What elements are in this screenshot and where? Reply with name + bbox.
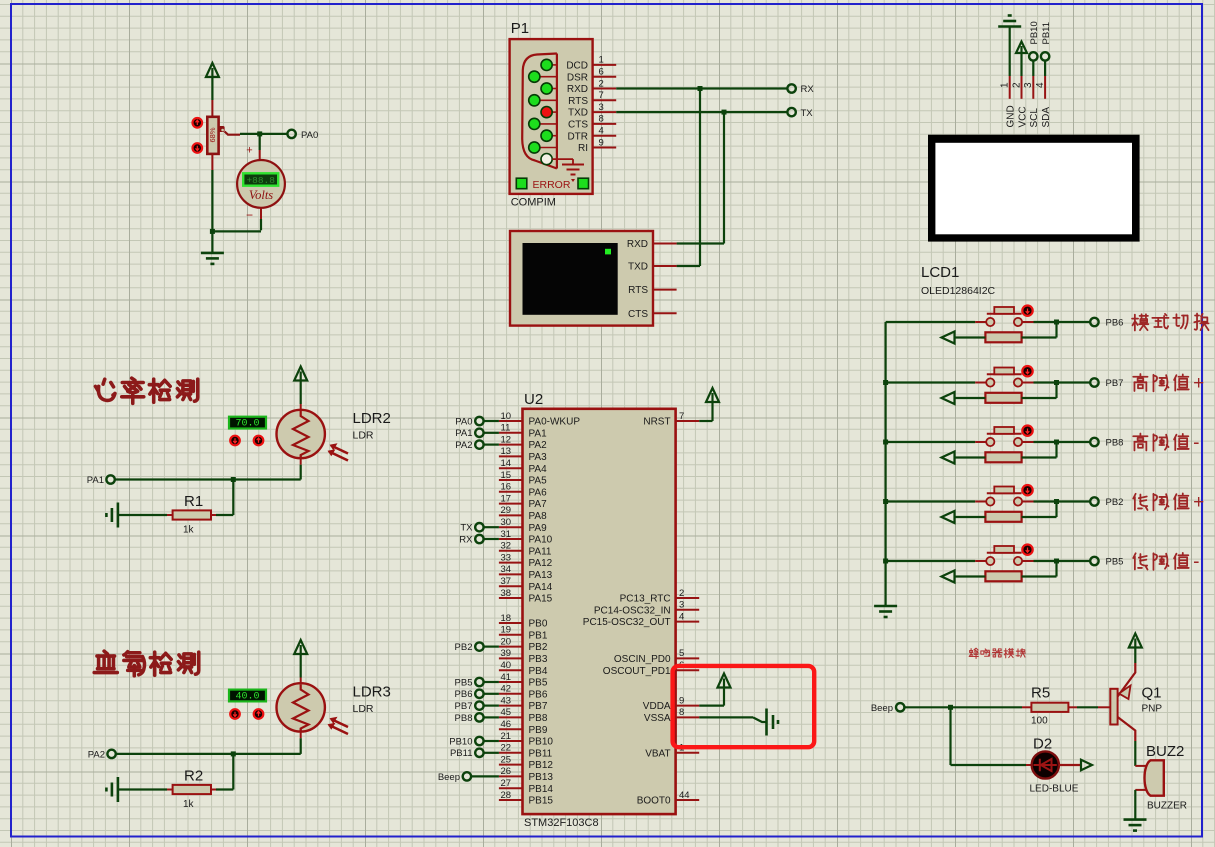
COMPIM pin CTS (8) <box>539 123 557 125</box>
svg-text:4: 4 <box>599 126 604 137</box>
svg-text:PB13: PB13 <box>529 772 554 783</box>
svg-text:PB7: PB7 <box>1106 378 1124 389</box>
svg-text:RI: RI <box>578 143 588 154</box>
resistor R1 <box>211 514 216 516</box>
svg-text:PB12: PB12 <box>529 760 554 771</box>
U2 pin PA6 (16) <box>499 491 523 493</box>
wire bus to key PB5 <box>886 560 976 562</box>
virtual terminal screen <box>523 243 618 315</box>
power VCC arrow (pot) <box>206 63 219 77</box>
svg-text:BOOT0: BOOT0 <box>637 796 671 807</box>
svg-text:PB6: PB6 <box>529 689 548 700</box>
svg-text:PA3: PA3 <box>529 452 548 463</box>
svg-text:4: 4 <box>679 611 684 622</box>
junction PA2-R2 <box>231 751 236 756</box>
wire key to terminal PB6 <box>1034 321 1091 323</box>
U2 pin PA2 (12) <box>499 444 523 446</box>
svg-text:PA1: PA1 <box>529 428 548 439</box>
transistor Q1 collector <box>1118 717 1136 741</box>
svg-text:PB0: PB0 <box>529 619 548 630</box>
svg-text:17: 17 <box>501 493 512 504</box>
svg-text:LDR: LDR <box>353 430 374 442</box>
svg-text:44: 44 <box>679 790 690 801</box>
svg-text:STM32F103C8: STM32F103C8 <box>524 817 599 829</box>
junction TXD <box>722 110 727 115</box>
label 模式切换 row 1 <box>1132 314 1148 330</box>
svg-text:TXD: TXD <box>568 108 588 119</box>
red highlight box <box>673 666 815 747</box>
wire bus to key PB6 <box>886 321 976 323</box>
wire NRST to VCC <box>699 420 712 422</box>
U2 pin PB1 (19) <box>499 634 523 636</box>
svg-text:13: 13 <box>501 446 512 457</box>
svg-text:PB11: PB11 <box>1041 22 1052 45</box>
wire VCC pin <box>1020 57 1022 76</box>
power VCC arrow (NRST) <box>706 388 719 402</box>
svg-text:GND: GND <box>1006 105 1017 127</box>
junction key PB8 <box>1054 440 1059 445</box>
wire Beep to R5 <box>904 706 1022 708</box>
svg-text:PB2: PB2 <box>1106 497 1124 508</box>
junction PA1-R1 <box>231 477 236 482</box>
display 40.0 <box>229 690 266 702</box>
U2 pin PA7 (17) <box>499 503 523 505</box>
svg-text:D2: D2 <box>1033 736 1052 753</box>
svg-text:15: 15 <box>501 470 512 481</box>
svg-text:RTS: RTS <box>628 285 648 296</box>
LDR2 down button <box>230 436 240 446</box>
U2 pin PA15 (38) <box>499 597 523 599</box>
svg-text:LDR2: LDR2 <box>353 410 391 427</box>
svg-text:32: 32 <box>501 541 512 552</box>
U2 pin PA12 (33) <box>499 562 523 564</box>
junction key PB5 <box>1054 559 1059 564</box>
svg-text:40: 40 <box>501 660 512 671</box>
ground (VSSA) <box>765 709 768 736</box>
svg-text:PA1: PA1 <box>455 428 472 439</box>
svg-text:14: 14 <box>501 458 512 469</box>
COMPIM D-sub outline <box>522 54 557 169</box>
svg-text:PB1: PB1 <box>529 630 548 641</box>
wire key to terminal PB7 <box>1034 381 1091 383</box>
svg-text:SDA: SDA <box>1041 107 1052 128</box>
wire PA1 <box>115 478 301 480</box>
LDR3 light arrows <box>329 719 348 734</box>
virtual terminal body <box>510 231 653 326</box>
svg-text:27: 27 <box>501 778 512 789</box>
svg-text:1k: 1k <box>183 525 195 536</box>
svg-text:PNP: PNP <box>1142 704 1163 715</box>
svg-text:33: 33 <box>501 552 512 563</box>
svg-text:31: 31 <box>501 529 512 540</box>
U2 pin PA13 (34) <box>499 573 523 575</box>
svg-text:PB2: PB2 <box>455 642 473 653</box>
COMPIM internal ground <box>552 158 573 160</box>
junction key PB7 <box>1054 380 1059 385</box>
svg-text:DTR: DTR <box>567 131 588 142</box>
svg-text:PB6: PB6 <box>1106 317 1124 328</box>
label threshold row 2 <box>1133 374 1147 391</box>
svg-text:VCC: VCC <box>1017 106 1028 127</box>
svg-text:PA10: PA10 <box>529 535 553 546</box>
svg-text:22: 22 <box>501 743 512 754</box>
svg-text:-: - <box>1193 433 1199 454</box>
U2 pin PA14 (37) <box>499 585 523 587</box>
terminal PB7 (keys) <box>1090 378 1098 386</box>
COMPIM pin TXD (3) <box>552 111 557 113</box>
pot up button <box>193 118 203 128</box>
power VCC arrow (VDDA) <box>718 674 731 688</box>
svg-text:2: 2 <box>679 588 684 599</box>
svg-text:PA7: PA7 <box>529 499 548 510</box>
COMPIM error led 1 <box>516 178 527 189</box>
svg-text:PA2: PA2 <box>88 750 105 761</box>
svg-text:Beep: Beep <box>438 772 460 783</box>
transistor Q1 emitter <box>1118 663 1136 697</box>
svg-text:1: 1 <box>1000 82 1011 88</box>
svg-text:TXD: TXD <box>628 262 648 273</box>
svg-text:37: 37 <box>501 576 512 587</box>
svg-text:PA15: PA15 <box>529 594 553 605</box>
COMPIM pin RI (9) <box>539 147 557 149</box>
key button PB6 <box>975 321 986 323</box>
svg-text:P1: P1 <box>511 20 529 37</box>
svg-text:3: 3 <box>599 102 604 113</box>
voltmeter display <box>243 173 278 185</box>
ground (buzzer) <box>1124 818 1147 821</box>
svg-text:PB11: PB11 <box>529 748 553 759</box>
svg-text:PB15: PB15 <box>529 796 554 807</box>
U2 pin PA3 (13) <box>499 455 523 457</box>
U2 pin PB8 (45) <box>499 716 523 718</box>
ground (R2) <box>117 777 120 802</box>
svg-text:+88.8: +88.8 <box>246 175 275 186</box>
wire bus to key PB8 <box>886 441 976 443</box>
svg-text:PB2: PB2 <box>529 642 548 653</box>
power VCC arrow (I2C) <box>1016 42 1027 54</box>
svg-text:OSCOUT_PD1: OSCOUT_PD1 <box>603 666 671 677</box>
wire wiper to PA0 <box>240 133 287 135</box>
svg-text:PB6: PB6 <box>455 689 473 700</box>
svg-text:PA12: PA12 <box>529 558 553 569</box>
svg-text:SCL: SCL <box>1029 108 1040 128</box>
svg-text:Q1: Q1 <box>1142 685 1162 702</box>
svg-text:43: 43 <box>501 695 512 706</box>
svg-text:1k: 1k <box>183 799 195 810</box>
wire pot top lead <box>211 100 213 118</box>
svg-text:12: 12 <box>501 434 512 445</box>
svg-text:TX: TX <box>801 108 814 119</box>
svg-text:2: 2 <box>599 78 604 89</box>
ground (I2C) <box>998 25 1021 28</box>
svg-text:PB8: PB8 <box>455 713 473 724</box>
svg-text:39: 39 <box>501 648 512 659</box>
svg-text:RX: RX <box>801 84 815 95</box>
power VCC arrow (Q1) <box>1129 634 1142 648</box>
wire VDDA to VCC <box>699 704 724 706</box>
resistor R5 <box>1031 703 1068 712</box>
svg-text:100: 100 <box>1031 716 1048 727</box>
U2 pin PA10 (31) <box>499 538 523 540</box>
junction bus row 5 <box>883 559 888 564</box>
svg-text:LDR3: LDR3 <box>353 684 391 701</box>
label threshold row 4 <box>1133 494 1147 510</box>
svg-text:PB10: PB10 <box>449 736 472 747</box>
svg-text:PB9: PB9 <box>529 725 548 736</box>
svg-text:PA8: PA8 <box>529 511 548 522</box>
svg-text:LED-BLUE: LED-BLUE <box>1030 784 1079 795</box>
svg-text:DCD: DCD <box>566 61 588 72</box>
wire Beep to D2 <box>949 707 951 765</box>
wire TXD to TX <box>616 111 787 113</box>
wire RXD to RX <box>616 87 787 89</box>
LDR2 body <box>300 404 302 413</box>
terminal PB11 (I2C) <box>1041 52 1049 60</box>
key button PB5 <box>975 560 986 562</box>
svg-text:PA13: PA13 <box>529 570 553 581</box>
terminal PB5 (keys) <box>1090 557 1098 565</box>
svg-text:PA0: PA0 <box>301 130 318 141</box>
junction RXD <box>698 86 703 91</box>
label 心率检测 <box>95 379 115 400</box>
svg-text:+: + <box>1193 492 1204 513</box>
ground (pot) <box>201 252 224 255</box>
U2 pin PA8 (29) <box>499 514 523 516</box>
svg-text:PA0: PA0 <box>455 416 472 427</box>
COMPIM error led 2 <box>578 178 589 189</box>
svg-text:1: 1 <box>599 55 604 66</box>
U2 pin PA5 (15) <box>499 479 523 481</box>
OLED display LCD1 <box>928 135 1140 242</box>
wire D2 to arrow <box>1059 764 1081 766</box>
svg-text:CTS: CTS <box>628 309 648 320</box>
junction bus row 2 <box>883 380 888 385</box>
wire GND pin <box>1009 27 1011 76</box>
wire bus to key PB7 <box>886 381 976 383</box>
U2 pin PB4 (40) <box>499 669 523 671</box>
U2 pin PB14 (27) <box>499 787 523 789</box>
LDR2 light arrows <box>329 446 348 461</box>
svg-text:Beep: Beep <box>871 703 893 714</box>
svg-text:PA4: PA4 <box>529 464 548 475</box>
svg-text:OSCIN_PD0: OSCIN_PD0 <box>614 654 671 665</box>
ground (R1) <box>117 503 120 528</box>
U2 pin PB15 (28) <box>499 799 523 801</box>
LDR3 body <box>300 678 302 687</box>
svg-text:PB10: PB10 <box>1029 21 1040 44</box>
svg-text:VBAT: VBAT <box>645 748 670 759</box>
svg-text:25: 25 <box>501 754 512 765</box>
LDR2 up button <box>254 436 264 446</box>
svg-text:7: 7 <box>599 90 604 101</box>
wire buzzer to ground <box>1134 790 1136 820</box>
label 蜂鸣器模块 <box>969 648 978 658</box>
svg-text:COMPIM: COMPIM <box>511 197 556 209</box>
resistor R2 <box>211 789 216 791</box>
svg-text:19: 19 <box>501 625 512 636</box>
svg-text:29: 29 <box>501 505 512 516</box>
svg-text:PB7: PB7 <box>529 701 548 712</box>
svg-text:BUZZER: BUZZER <box>1147 801 1187 812</box>
svg-text:46: 46 <box>501 719 512 730</box>
transistor Q1 base bar <box>1110 689 1117 725</box>
voltmeter body <box>237 160 285 208</box>
label threshold row 3 <box>1133 433 1147 450</box>
virtual terminal cursor <box>605 249 611 255</box>
I2C pin VCC (2) <box>1021 76 1023 99</box>
svg-text:RX: RX <box>459 534 473 545</box>
svg-text:42: 42 <box>501 684 512 695</box>
wire PA2 <box>116 753 301 755</box>
U2 pin PB3 (39) <box>499 657 523 659</box>
wire R2 to ground <box>118 788 167 790</box>
svg-text:PA2: PA2 <box>529 440 548 451</box>
U2 pin PB6 (42) <box>499 693 523 695</box>
svg-text:−: − <box>246 208 253 222</box>
U2 pin PB10 (21) <box>499 740 523 742</box>
svg-text:R2: R2 <box>184 768 203 785</box>
svg-text:U2: U2 <box>524 391 543 408</box>
svg-text:2: 2 <box>1011 82 1022 88</box>
svg-text:RXD: RXD <box>567 84 588 95</box>
I2C pin GND (1) <box>1009 76 1011 99</box>
junction wiper <box>257 131 262 136</box>
U2 pin PA9 (30) <box>499 526 523 528</box>
svg-text:RTS: RTS <box>568 96 588 107</box>
svg-text:LDR: LDR <box>353 703 374 715</box>
svg-text:+: + <box>1193 373 1204 394</box>
svg-text:PC14-OSC32_IN: PC14-OSC32_IN <box>594 605 671 616</box>
svg-text:Volts: Volts <box>249 188 273 202</box>
svg-text:41: 41 <box>501 672 512 683</box>
key bus vertical <box>884 322 886 606</box>
junction bus row 3 <box>883 440 888 445</box>
junction bus row 4 <box>883 499 888 504</box>
svg-text:ERROR: ERROR <box>533 179 571 191</box>
svg-text:PA11: PA11 <box>529 546 552 557</box>
svg-text:11: 11 <box>501 423 511 434</box>
svg-text:PA2: PA2 <box>455 440 472 451</box>
svg-text:9: 9 <box>599 137 604 148</box>
svg-text:16: 16 <box>501 482 512 493</box>
U2 pin PA0-WKUP (10) <box>499 420 523 422</box>
power VCC arrow (LDR2) <box>294 367 307 381</box>
COMPIM pin DTR (4) <box>552 135 557 137</box>
U2 pin PB2 (20) <box>499 646 523 648</box>
svg-text:PB5: PB5 <box>455 677 473 688</box>
potentiometer RV1 body <box>207 117 218 154</box>
svg-text:7: 7 <box>679 411 684 422</box>
pot down button <box>193 143 203 153</box>
wire emitter to VCC <box>1134 648 1136 663</box>
U2 pin PA11 (32) <box>499 550 523 552</box>
svg-text:18: 18 <box>501 613 512 624</box>
COMPIM P1 body <box>510 39 593 194</box>
wire key to terminal PB2 <box>1034 500 1091 502</box>
COMPIM pin DSR (6) <box>539 76 557 78</box>
wire key to terminal PB8 <box>1034 441 1091 443</box>
LED D2 <box>1032 751 1059 778</box>
svg-text:R5: R5 <box>1031 685 1050 702</box>
svg-text:TX: TX <box>460 523 473 534</box>
ground (keys) <box>874 605 897 608</box>
wire VSSA to ground <box>699 716 753 718</box>
svg-text:PA14: PA14 <box>529 582 553 593</box>
U2 pin PB9 (46) <box>499 728 523 730</box>
svg-text:70.0: 70.0 <box>235 419 259 430</box>
junction Beep <box>948 705 953 710</box>
arrow terminal (D2) <box>1081 760 1092 771</box>
svg-text:30: 30 <box>501 517 512 528</box>
svg-text:VDDA: VDDA <box>643 701 671 712</box>
svg-text:OLED12864I2C: OLED12864I2C <box>921 285 996 297</box>
svg-text:9: 9 <box>679 695 684 706</box>
svg-text:PA1: PA1 <box>87 475 104 486</box>
pot wiper arrow <box>219 126 225 132</box>
COMPIM shell pin <box>541 154 552 165</box>
svg-text:3: 3 <box>679 600 684 611</box>
svg-text:34: 34 <box>501 564 512 575</box>
svg-text:21: 21 <box>501 731 512 742</box>
terminal PB10 (I2C) <box>1029 52 1037 60</box>
svg-text:PB10: PB10 <box>529 737 554 748</box>
svg-text:6: 6 <box>599 67 604 78</box>
COMPIM pin RXD (2) <box>552 88 557 90</box>
svg-text:8: 8 <box>679 707 684 718</box>
U2 pin PB13 (26) <box>499 775 523 777</box>
svg-text:PB8: PB8 <box>1106 437 1124 448</box>
terminal PA0 (pot) <box>287 130 295 138</box>
svg-text:LCD1: LCD1 <box>921 264 959 281</box>
terminal TX <box>787 108 795 116</box>
wire voltmeter bottom <box>260 208 262 219</box>
I2C pin SCL (3) <box>1032 76 1034 99</box>
junction key PB6 <box>1054 320 1059 325</box>
svg-text:45: 45 <box>501 707 512 718</box>
svg-text:PC15-OSC32_OUT: PC15-OSC32_OUT <box>583 617 671 628</box>
svg-text:PA0-WKUP: PA0-WKUP <box>529 417 581 428</box>
svg-text:PB5: PB5 <box>529 678 548 689</box>
svg-text:PA9: PA9 <box>529 523 548 534</box>
U2 pin PB12 (25) <box>499 764 523 766</box>
svg-text:26: 26 <box>501 766 512 777</box>
key button PB8 <box>975 441 986 443</box>
wire pot bottom lead <box>211 153 213 170</box>
svg-text:+: + <box>246 145 252 157</box>
U2 pin PB11 (22) <box>499 752 523 754</box>
svg-text:5: 5 <box>679 648 684 659</box>
LDR3 down button <box>230 709 240 719</box>
svg-text:NRST: NRST <box>643 417 670 428</box>
U2 pin PB7 (43) <box>499 705 523 707</box>
COMPIM pin DCD (1) <box>552 64 557 66</box>
U2 pin PA4 (14) <box>499 467 523 469</box>
svg-text:VSSA: VSSA <box>644 713 671 724</box>
svg-text:8: 8 <box>599 114 604 125</box>
terminal PB8 (keys) <box>1090 438 1098 446</box>
svg-text:3: 3 <box>1023 82 1034 88</box>
svg-text:-: - <box>1193 552 1199 573</box>
wire R1 to ground <box>118 514 167 516</box>
terminal PB2 (keys) <box>1090 497 1098 505</box>
svg-text:40.0: 40.0 <box>235 691 259 702</box>
svg-text:PB4: PB4 <box>529 666 548 677</box>
U2 body <box>523 409 676 814</box>
key button PB7 <box>975 382 986 384</box>
U2 pin PB0 (18) <box>499 622 523 624</box>
svg-text:PB7: PB7 <box>455 701 473 712</box>
label threshold row 5 <box>1133 553 1147 569</box>
